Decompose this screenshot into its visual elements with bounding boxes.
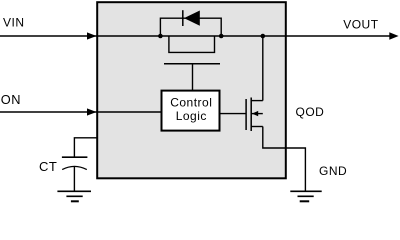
svg-text:Control: Control bbox=[170, 95, 212, 109]
svg-text:VOUT: VOUT bbox=[343, 17, 379, 31]
svg-text:Logic: Logic bbox=[176, 109, 207, 123]
svg-text:ON: ON bbox=[1, 92, 21, 107]
svg-text:VIN: VIN bbox=[3, 16, 25, 30]
svg-text:CT: CT bbox=[39, 159, 57, 174]
svg-text:GND: GND bbox=[319, 164, 347, 178]
svg-text:QOD: QOD bbox=[296, 105, 325, 119]
